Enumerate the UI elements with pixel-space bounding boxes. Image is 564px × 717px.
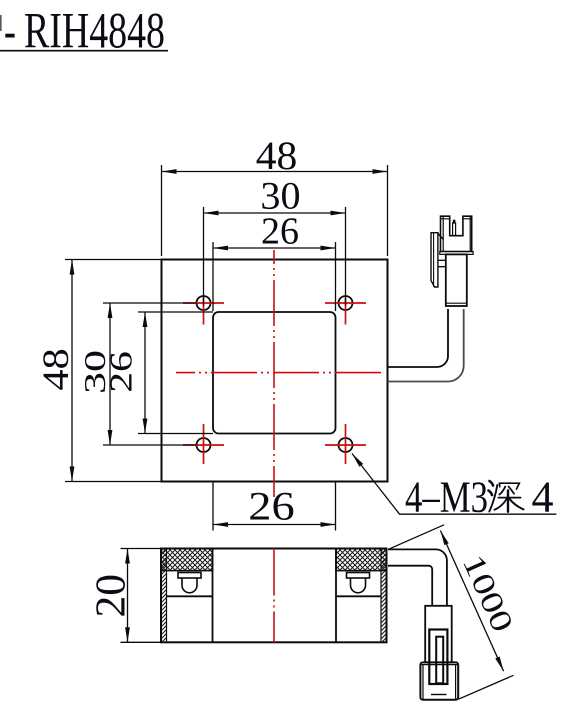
head bottom flange (440, 252, 473, 255)
svg-text:1000: 1000 (456, 549, 520, 637)
top view group (162, 250, 464, 497)
dim 48 top line (162, 171, 388, 173)
channel bottom line (431, 694, 447, 696)
svg-text:26: 26 (104, 351, 139, 393)
latch plate (431, 233, 438, 287)
title underline (0, 50, 168, 52)
dim 26 top ext left (212, 242, 214, 311)
dim 26 bottom ext right (335, 482, 337, 531)
red centerline vertical (273, 250, 275, 497)
dim 48 top ext left (161, 165, 163, 256)
base inner verticals (422, 665, 424, 700)
head outline with prongs (441, 216, 472, 251)
dim 48 left line (71, 260, 73, 482)
hole bottom-left (197, 438, 211, 452)
title cut-off char fragment (0, 15, 2, 31)
CJK char shen (deep) drawn strokes (489, 481, 524, 512)
outer square 48x48 (162, 260, 388, 482)
red centerline horizontal (176, 372, 385, 374)
red cross hole BL (183, 424, 224, 464)
pin in notch (453, 223, 456, 236)
right wall hatched strip (381, 549, 387, 643)
dim 30 top ext right (345, 207, 347, 306)
top hatch block left (161, 549, 213, 571)
body bottom line (446, 302, 467, 304)
side outer rect (161, 549, 387, 643)
dim 26 bottom line (213, 524, 336, 526)
inner wall left (212, 549, 214, 643)
hole top-left (197, 296, 211, 310)
inner wall right (335, 549, 337, 643)
top dimensions (162, 134, 388, 531)
dim 30 top line (204, 212, 346, 214)
svg-text:20: 20 (88, 574, 134, 618)
svg-text:4–M3: 4–M3 (405, 473, 488, 522)
dim 26 top ext right (335, 242, 337, 311)
top hatch block right (336, 549, 387, 571)
base doubled top line (420, 664, 458, 666)
dim 48 top ext right (387, 165, 389, 256)
dim 48 left ext bottom (65, 481, 162, 483)
dim 26 bottom ext left (212, 482, 214, 531)
dim 26 top line (213, 247, 336, 249)
svg-text:48: 48 (256, 134, 298, 178)
dim 30 left ext bottom (103, 444, 197, 446)
slot outer (429, 630, 447, 685)
dim 30 top ext left (203, 207, 205, 306)
dim 20 line (127, 549, 129, 643)
latch plate inner line (433, 233, 435, 287)
dim 20 ext top (121, 548, 163, 550)
connector top (431, 216, 473, 306)
led right dome (351, 578, 366, 593)
dim 30 left ext top (103, 302, 197, 304)
plug body (446, 254, 467, 306)
svg-text:26: 26 (261, 211, 299, 253)
latch crossbar (438, 260, 446, 266)
dim 1000 (390, 525, 521, 699)
red cross hole TL (183, 298, 224, 325)
svg-text:26: 26 (248, 484, 294, 528)
led left flange (178, 573, 201, 579)
led right flange (347, 573, 370, 579)
left dimensions (36, 260, 213, 482)
pcb line right (336, 595, 381, 597)
red cross hole TR (325, 298, 366, 325)
side view (88, 549, 446, 643)
led left dome (182, 578, 197, 593)
svg-text:48: 48 (36, 348, 77, 390)
dim 20 ext bottom (121, 641, 163, 643)
left wall hatched strip (161, 549, 167, 643)
hole top-right (339, 296, 353, 310)
dim 26 left ext top (138, 311, 213, 313)
dim 30 left line (109, 303, 111, 445)
slot inner prong (436, 637, 443, 684)
dim line 1000 (440, 531, 503, 672)
inner square 26x26 (213, 312, 336, 434)
dim 26 left line (144, 312, 146, 434)
red centerline side view (273, 549, 275, 643)
title text -RIH4848 (0, 2, 168, 59)
ext top (390, 525, 445, 549)
dim 48 left ext top (65, 259, 162, 261)
wire side view (388, 549, 447, 605)
leader line (352, 454, 556, 515)
wire top view (388, 309, 449, 367)
ext bottom (459, 675, 514, 699)
base outer (420, 662, 458, 699)
pcb line left (167, 595, 213, 597)
latch top diagonal (438, 234, 444, 240)
head inner prong lines (442, 216, 444, 251)
hole bottom-right (339, 438, 353, 452)
leader 4-M3 (352, 454, 556, 522)
svg-text:4: 4 (532, 473, 554, 522)
plug body (425, 606, 452, 663)
connector bottom (420, 606, 458, 700)
dim 26 left ext bottom (138, 433, 213, 435)
red cross hole BR (325, 424, 366, 464)
